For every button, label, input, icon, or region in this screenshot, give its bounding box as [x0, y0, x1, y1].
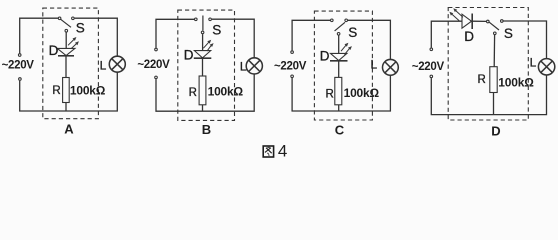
switch S (circuit D) — [487, 20, 504, 35]
svg-text:S: S — [504, 26, 513, 41]
svg-text:D: D — [320, 48, 330, 63]
wire D: resistor to bottom wire — [493, 93, 495, 115]
diode D (circuit A, photodiode pointing down) — [57, 48, 75, 55]
enclosure dashed box A — [43, 8, 99, 119]
wire C: diode to resistor — [338, 61, 340, 78]
svg-text:R: R — [52, 85, 60, 97]
wire D: diode to switch — [472, 20, 486, 22]
svg-text:L: L — [100, 58, 107, 72]
enclosure dashed box C — [314, 11, 372, 120]
wire A: diode to resistor — [65, 56, 67, 78]
wire B: resistor to bottom wire — [202, 105, 204, 111]
lamp L (circuit B) — [246, 58, 262, 74]
wire C: resistor to bottom wire — [338, 105, 340, 111]
wire D: switch to resistor — [493, 35, 495, 67]
AC source ~220V (circuit A) terminals — [18, 54, 21, 81]
switch S (circuit B) — [195, 16, 212, 34]
resistor R (circuit B) — [199, 76, 206, 105]
switch S (circuit A) — [58, 17, 74, 32]
wire D top-left — [431, 21, 462, 47]
resistor R (circuit D) — [490, 67, 497, 93]
lamp L (circuit A) — [109, 56, 125, 72]
resistor R (circuit A) — [63, 78, 70, 103]
AC source ~220V (circuit C) terminals — [291, 51, 294, 78]
diode D (circuit B) light arrows — [203, 40, 213, 51]
wire A top-left: top wire from left corner to switch — [20, 18, 58, 53]
wire B: switch to diode — [202, 34, 204, 50]
diode D (circuit C, photodiode pointing down) — [330, 53, 348, 60]
svg-text:S: S — [76, 21, 85, 36]
svg-text:~220V: ~220V — [137, 59, 170, 71]
svg-text:B: B — [202, 122, 211, 137]
wire A top-right: from switch to lamp top — [75, 18, 118, 56]
wire D right-bottom — [431, 75, 546, 115]
wire C: switch to diode — [338, 36, 340, 54]
resistor R (circuit C) — [335, 77, 342, 104]
svg-text:A: A — [64, 122, 74, 137]
wire B top-left — [156, 19, 194, 48]
enclosure dashed box B — [178, 10, 235, 120]
svg-text:R: R — [189, 87, 197, 99]
svg-text:R: R — [478, 74, 486, 86]
lamp L (circuit C) — [383, 59, 399, 75]
svg-text:100kΩ: 100kΩ — [498, 76, 534, 90]
wire C right-bottom — [292, 75, 390, 111]
lamp L (circuit D) — [538, 59, 554, 75]
svg-text:S: S — [348, 25, 357, 40]
svg-text:S: S — [212, 23, 221, 38]
AC source ~220V (circuit D) terminals — [430, 48, 433, 78]
svg-text:100kΩ: 100kΩ — [344, 86, 380, 100]
wire C top-left — [292, 20, 330, 50]
svg-text:L: L — [240, 60, 247, 74]
switch S (circuit C) — [331, 19, 348, 35]
svg-text:D: D — [49, 43, 59, 58]
wire D top-right — [503, 21, 546, 59]
enclosure dashed box D — [448, 8, 528, 121]
svg-text:~220V: ~220V — [2, 60, 35, 72]
svg-text:L: L — [530, 56, 537, 70]
svg-text:D: D — [184, 47, 194, 62]
wire A: switch to diode — [65, 32, 67, 48]
svg-text:100kΩ: 100kΩ — [208, 85, 244, 99]
svg-text:D: D — [464, 29, 474, 44]
wire A: resistor to bottom wire — [65, 103, 67, 112]
wire C top-right — [348, 20, 391, 59]
svg-text:D: D — [491, 123, 500, 138]
wire B right-bottom — [156, 74, 254, 111]
diode D (circuit B, photodiode pointing down) — [194, 51, 212, 59]
svg-text:~220V: ~220V — [412, 61, 445, 73]
diode D (circuit D, photodiode pointing right) — [462, 14, 472, 30]
svg-text:R: R — [326, 88, 334, 100]
caption glyph 图 (hand drawn) — [263, 146, 273, 157]
wire B: diode to resistor — [202, 58, 204, 76]
svg-text:L: L — [371, 57, 378, 71]
diode D (circuit D) light arrows — [449, 8, 463, 21]
svg-text:C: C — [335, 122, 345, 137]
diode D (circuit A) light arrows — [68, 37, 79, 49]
svg-text:4: 4 — [278, 142, 287, 161]
diode D (circuit C) light arrows — [341, 43, 352, 55]
svg-text:100kΩ: 100kΩ — [70, 84, 106, 98]
svg-text:~220V: ~220V — [274, 60, 307, 72]
wire A right-bottom: lamp bottom to bottom wire to left — [20, 72, 118, 111]
AC source ~220V (circuit B) terminals — [155, 48, 158, 78]
wire B top-right — [212, 19, 254, 58]
